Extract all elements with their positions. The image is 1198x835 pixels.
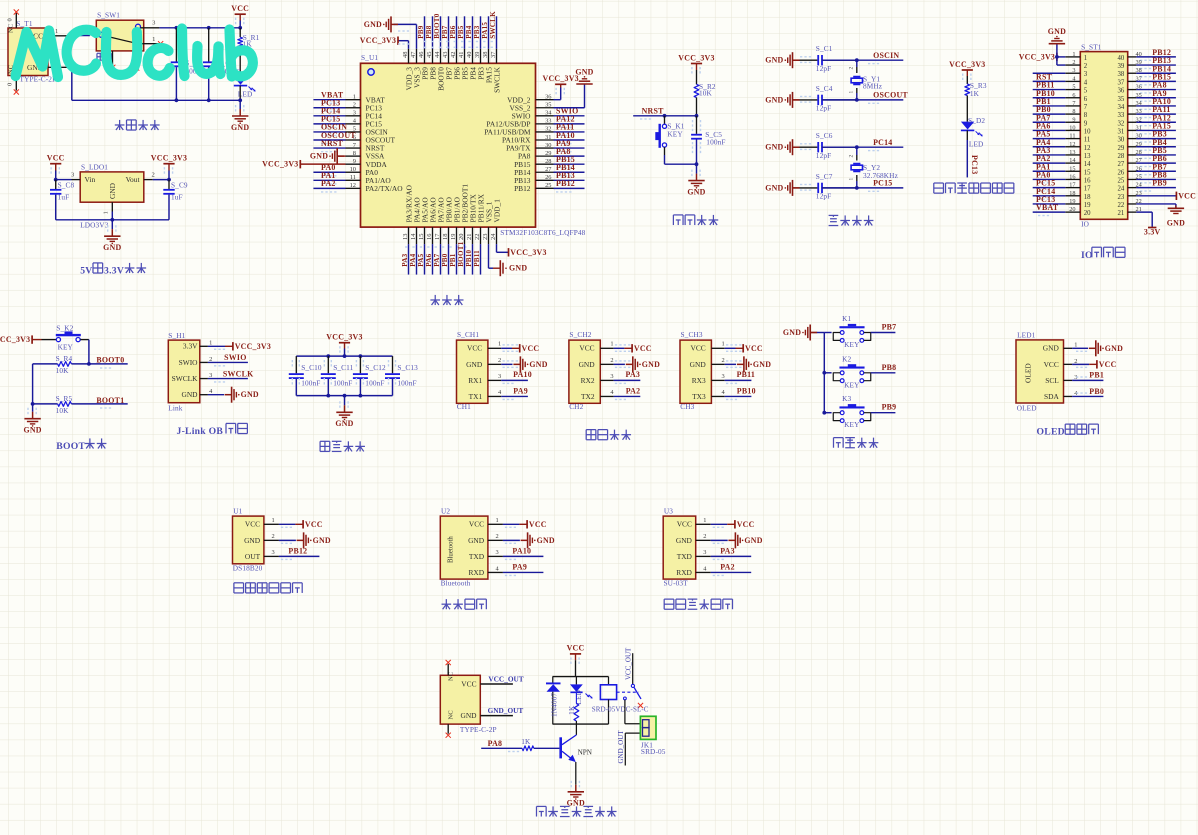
- switch pin 3: [141, 27, 160, 29]
- svg-text:9: 9: [353, 158, 356, 165]
- svg-text:3: 3: [496, 549, 499, 556]
- svg-text:PC14: PC14: [873, 138, 892, 147]
- wire/net PB9: [871, 412, 896, 414]
- 3.3V rail at io pin21: [1136, 211, 1152, 213]
- svg-text:VCC: VCC: [737, 520, 755, 529]
- svg-text:1: 1: [55, 28, 58, 35]
- wire/net PB8 io-right: [1136, 178, 1176, 180]
- svg-text:37: 37: [490, 51, 497, 58]
- title 继电器控制电路: [535, 806, 537, 816]
- wire/net OSCOUT: [313, 139, 345, 141]
- svg-text:40: 40: [466, 52, 473, 58]
- svg-text:S_LDO1: S_LDO1: [81, 163, 108, 172]
- svg-text:S_C9: S_C9: [171, 181, 188, 190]
- svg-text:GND: GND: [108, 182, 117, 199]
- switch S_SW1: [96, 20, 143, 51]
- svg-text:BOOT0: BOOT0: [433, 13, 441, 38]
- svg-text:GND: GND: [23, 426, 41, 435]
- svg-text:5: 5: [1072, 84, 1075, 91]
- wire/net PA4 io-left: [1033, 146, 1066, 148]
- wire/net PB5 io-right: [1136, 154, 1176, 156]
- svg-text:18: 18: [442, 234, 449, 240]
- svg-text:7: 7: [1084, 104, 1088, 111]
- svg-text:PA2/TX/AO: PA2/TX/AO: [366, 184, 404, 193]
- svg-text:1: 1: [498, 341, 501, 348]
- wire/net PB0 io-left: [1033, 113, 1066, 115]
- svg-text:VCC_3V3: VCC_3V3: [1019, 52, 1055, 61]
- pushbutton S_K2 KEY: [42, 339, 57, 341]
- wire/net PA6 vertical bottom: [432, 244, 434, 275]
- header pin 38 right: [1128, 72, 1137, 74]
- svg-text:TX1: TX1: [469, 392, 483, 401]
- wire/net NRST: [313, 147, 345, 149]
- svg-text:NC: NC: [8, 23, 15, 33]
- svg-text:GND: GND: [642, 360, 660, 369]
- header pin 26 right: [1128, 170, 1137, 172]
- wire/net PA3 vertical bottom: [408, 244, 410, 275]
- svg-text:VCC_3V3: VCC_3V3: [151, 154, 187, 163]
- pin 13 PA3/RX/AO: [408, 227, 410, 244]
- svg-text:24: 24: [490, 233, 497, 240]
- svg-text:OSCIN: OSCIN: [873, 51, 899, 60]
- svg-text:Vin: Vin: [85, 175, 96, 184]
- pin 38 PA15: [488, 49, 490, 64]
- svg-text:19: 19: [450, 234, 457, 240]
- svg-text:100nF: 100nF: [301, 378, 320, 387]
- svg-text:27: 27: [1118, 161, 1125, 168]
- svg-text:VCC_3V3: VCC_3V3: [326, 333, 362, 342]
- wire/net PA1 io-left: [1033, 170, 1066, 172]
- pushbutton K3 KEY: [839, 406, 864, 408]
- svg-text:GND: GND: [765, 56, 783, 65]
- net label NRST wire: [633, 115, 696, 117]
- svg-text:3.3V: 3.3V: [104, 266, 124, 277]
- svg-text:31: 31: [1118, 128, 1125, 135]
- svg-text:2: 2: [353, 102, 356, 109]
- pin 37 SWCLK: [496, 49, 498, 64]
- header pin 5 left: [1065, 89, 1080, 91]
- pin 1 GND of LDO: [111, 202, 113, 211]
- wire/net PB3 io-right: [1136, 138, 1176, 140]
- svg-text:PA7: PA7: [433, 253, 441, 266]
- svg-text:3.3V: 3.3V: [183, 342, 198, 351]
- pin 42 PB6: [456, 49, 458, 64]
- svg-text:GND: GND: [1048, 27, 1066, 36]
- svg-text:TX2: TX2: [581, 392, 595, 401]
- pin 46 PB9: [424, 49, 426, 64]
- svg-text:11: 11: [350, 174, 356, 181]
- wire/net PA7 io-left: [1033, 121, 1066, 123]
- header pin 33 right: [1128, 113, 1137, 115]
- svg-text:VCC_3V3: VCC_3V3: [262, 160, 298, 169]
- wire/net GND_OUT: [480, 715, 513, 717]
- svg-text:SWCLK: SWCLK: [223, 369, 254, 378]
- title 语音识别模块: [664, 598, 674, 600]
- wire/net VBAT: [313, 99, 345, 101]
- serial header S_CH1: [457, 340, 488, 403]
- svg-text:LDO3V3: LDO3V3: [80, 221, 109, 230]
- wire/net PB4 vertical: [472, 16, 474, 49]
- LED in relay circuit: [575, 677, 577, 685]
- VCC_3V3 power bar reset: [691, 63, 702, 65]
- svg-text:PB12: PB12: [514, 184, 531, 193]
- pushbutton K1 KEY: [839, 326, 864, 328]
- pin 33 PA12/USB/DP: [536, 123, 554, 125]
- header pin 39 right: [1128, 64, 1137, 66]
- ground GND transistor: [575, 762, 577, 785]
- svg-text:S_ST1: S_ST1: [1081, 43, 1102, 52]
- svg-text:2: 2: [1072, 59, 1075, 66]
- svg-text:GND: GND: [466, 360, 483, 369]
- pin 6 OSCOUT: [346, 139, 361, 141]
- module U3 SU-03T: [663, 516, 696, 579]
- wire/net PA15 io-right: [1136, 129, 1176, 131]
- title 滤波电路: [320, 440, 330, 442]
- wire/net PB0: [1072, 395, 1103, 397]
- svg-text:GND: GND: [310, 152, 328, 161]
- svg-text:S_CH1: S_CH1: [457, 330, 479, 339]
- wire/net PB10: [725, 395, 752, 397]
- svg-text:VCC_3V3: VCC_3V3: [510, 248, 546, 257]
- svg-text:1: 1: [496, 517, 499, 524]
- VCC_3V3 at VDD_3 pin48: [398, 40, 409, 42]
- resistor S_R3 1K: [965, 84, 970, 96]
- VCC at U3 pin1: [711, 523, 728, 525]
- svg-text:PB10: PB10: [737, 386, 756, 395]
- svg-text:U1: U1: [233, 506, 242, 515]
- svg-text:VCC: VCC: [245, 520, 260, 529]
- svg-text:BOOT1: BOOT1: [96, 396, 124, 405]
- svg-text:PC15: PC15: [873, 179, 892, 188]
- svg-text:12: 12: [1069, 141, 1075, 148]
- header pin 15 left: [1065, 170, 1080, 172]
- wire LDO bottom rail: [56, 219, 169, 221]
- svg-text:17: 17: [1069, 182, 1075, 189]
- wire/net PB13 io-right: [1136, 64, 1176, 66]
- svg-text:29: 29: [545, 150, 551, 157]
- wire/net PA10 io-right: [1136, 105, 1176, 107]
- svg-text:20: 20: [458, 234, 465, 240]
- svg-text:KEY: KEY: [844, 380, 860, 389]
- wire/net PB11: [725, 379, 752, 381]
- VCC_3V3 power bar boot: [31, 335, 33, 343]
- capacitor S_C4 12pF: [800, 99, 818, 101]
- header pin 36 right: [1128, 89, 1137, 91]
- svg-text:14: 14: [410, 233, 417, 240]
- wire/net PB12: [279, 555, 320, 557]
- svg-text:8MHz: 8MHz: [863, 82, 883, 91]
- svg-text:IO: IO: [1081, 250, 1093, 261]
- svg-text:GND: GND: [364, 20, 382, 29]
- relay switch contacts: [617, 691, 639, 693]
- svg-text:2: 2: [722, 357, 725, 364]
- title 按键电路: [832, 438, 834, 448]
- ground GND at U2 pin2: [503, 539, 520, 541]
- svg-text:NRST: NRST: [642, 107, 665, 116]
- wire/net PA9: [503, 571, 544, 573]
- svg-text:GND: GND: [1167, 218, 1185, 227]
- wire and net PC15: [822, 187, 904, 189]
- pushbutton K2 KEY: [839, 367, 864, 369]
- svg-text:TXD: TXD: [469, 552, 485, 561]
- svg-text:13: 13: [1084, 153, 1091, 160]
- wire/net PB15: [554, 163, 585, 165]
- capacitor S_C12 100nF: [359, 356, 361, 373]
- capacitor S_C9 1uF: [168, 180, 170, 189]
- ground GND at OLED pin1: [1072, 347, 1088, 349]
- svg-text:IO: IO: [1081, 220, 1089, 229]
- wire S_T1 pin2 down to bottom rail: [67, 66, 72, 68]
- wire VCC top rail: [239, 21, 241, 28]
- ground at VSSA pin8: [337, 155, 344, 157]
- svg-text:DS18B20: DS18B20: [233, 563, 263, 572]
- title 复位电路: [672, 215, 674, 225]
- svg-text:S_D2: S_D2: [968, 116, 985, 125]
- wire/net PB7 io-right: [1136, 170, 1176, 172]
- svg-text:S_C10: S_C10: [301, 363, 322, 372]
- wire/net PA10: [503, 555, 544, 557]
- wire/net PC15 io-left: [1033, 187, 1066, 189]
- svg-text:BOOT1: BOOT1: [457, 241, 465, 266]
- wire K2 to BOOT0 net: [88, 340, 90, 364]
- VCC at U2 pin1: [503, 523, 520, 525]
- pin 25 PB12: [536, 187, 554, 189]
- svg-text:15: 15: [1084, 169, 1091, 176]
- svg-text:STM32F103C8T6_LQFP48: STM32F103C8T6_LQFP48: [500, 228, 585, 237]
- wire/net PB15 io-right: [1136, 80, 1176, 82]
- svg-text:GND: GND: [509, 264, 527, 273]
- svg-text:PA2: PA2: [321, 179, 336, 188]
- pin 19 PB1/AO: [456, 227, 458, 244]
- header pin 18 left: [1065, 195, 1080, 197]
- wire/net PC13: [313, 107, 345, 109]
- pin 31 PA10/RX: [536, 139, 554, 141]
- svg-text:LED: LED: [969, 140, 984, 149]
- wire/net PB6 vertical: [456, 16, 458, 49]
- header pin 29 right: [1128, 146, 1137, 148]
- wire/net PB14 io-right: [1136, 72, 1176, 74]
- ground GND at io pin22: [1136, 203, 1176, 205]
- svg-text:GND: GND: [244, 536, 261, 545]
- svg-text:PB8: PB8: [882, 363, 897, 372]
- svg-text:16: 16: [426, 234, 433, 240]
- svg-text:35: 35: [545, 102, 551, 109]
- VCC_3V3 at H1 pin1: [208, 345, 225, 347]
- svg-text:2: 2: [496, 533, 499, 540]
- capacitor S_C11 100nF: [327, 356, 329, 373]
- svg-text:14: 14: [1084, 161, 1091, 168]
- svg-text:S_U1: S_U1: [361, 53, 378, 62]
- crystal S_Y2 32.768KHz: [856, 147, 858, 155]
- wire to JK1 pin1: [624, 700, 626, 724]
- resistor 1K relay: [575, 692, 577, 703]
- svg-text:9: 9: [1072, 116, 1075, 123]
- svg-text:BOOT0: BOOT0: [96, 355, 124, 364]
- svg-text:VCC: VCC: [1044, 360, 1059, 369]
- header pin 34 right: [1128, 105, 1137, 107]
- connector S_T1 TYPE-C-2P: [8, 28, 48, 76]
- svg-text:1N4007: 1N4007: [550, 693, 559, 717]
- svg-text:PB0: PB0: [1089, 387, 1104, 396]
- VCC_3V3 at VDD_2 pin36: [554, 99, 561, 101]
- svg-text:23: 23: [1118, 194, 1125, 201]
- svg-text:28: 28: [545, 158, 551, 165]
- svg-text:PB11: PB11: [737, 370, 756, 379]
- svg-text:12pF: 12pF: [816, 151, 831, 160]
- svg-text:GND: GND: [676, 536, 693, 545]
- svg-text:12pF: 12pF: [816, 104, 831, 113]
- MCU U1 STM32F103C8T6 main chip: [361, 63, 536, 227]
- wire/net PB8 vertical: [432, 16, 434, 49]
- svg-text:VCC_3V3: VCC_3V3: [0, 335, 30, 344]
- svg-text:GND: GND: [460, 711, 477, 720]
- svg-text:GND: GND: [468, 536, 485, 545]
- capacitor S_C1 12pF: [800, 59, 818, 61]
- header pin 12 left: [1065, 146, 1080, 148]
- svg-text:2: 2: [610, 357, 613, 364]
- svg-text:PA9: PA9: [513, 386, 528, 395]
- connector TYPE-C-2P power out: [440, 675, 480, 724]
- svg-text:PB5: PB5: [457, 25, 465, 39]
- capacitor S_C7 12pF: [800, 187, 818, 189]
- svg-text:10: 10: [350, 166, 356, 173]
- svg-text:CH3: CH3: [680, 402, 694, 411]
- VCC power bar relay: [570, 653, 581, 655]
- wire/net PA2: [711, 571, 752, 573]
- header pin 25 right: [1128, 178, 1137, 180]
- svg-text:3.3V: 3.3V: [1144, 228, 1161, 237]
- pin 12 PA2/TX/AO: [346, 187, 361, 189]
- svg-text:PB3: PB3: [473, 25, 481, 39]
- svg-text:12pF: 12pF: [816, 192, 831, 201]
- svg-text:19: 19: [1069, 198, 1075, 205]
- svg-text:PA8: PA8: [488, 739, 503, 748]
- svg-text:15: 15: [418, 234, 425, 240]
- svg-text:46: 46: [418, 52, 425, 58]
- svg-text:GND: GND: [690, 360, 707, 369]
- svg-text:SWIO: SWIO: [179, 358, 199, 367]
- svg-text:10K: 10K: [56, 406, 70, 415]
- svg-text:1: 1: [353, 94, 356, 101]
- svg-text:PA10: PA10: [513, 370, 532, 379]
- svg-text:3: 3: [1072, 67, 1075, 74]
- wire/net PA3: [614, 379, 641, 381]
- svg-text:1: 1: [849, 178, 855, 181]
- wire/net PA2 io-left: [1033, 162, 1066, 164]
- wire and net OSCIN: [822, 59, 904, 61]
- pin 40 PB4: [472, 49, 474, 64]
- svg-text:PB12: PB12: [288, 547, 307, 556]
- svg-text:2: 2: [849, 67, 855, 70]
- svg-text:SWCLK: SWCLK: [172, 374, 199, 383]
- VCC_3V3 at io pin1: [1057, 56, 1065, 58]
- serial header S_CH2: [569, 340, 600, 403]
- svg-text:S_C11: S_C11: [333, 363, 353, 372]
- pin 22 PB11/RX: [480, 227, 482, 244]
- svg-text:S_SW1: S_SW1: [97, 11, 120, 20]
- ground GND power circuit: [239, 100, 241, 109]
- header pin 9 left: [1065, 121, 1080, 123]
- ground GND at H1 pin4: [208, 394, 224, 396]
- wire/net PB13: [554, 179, 585, 181]
- svg-text:NC: NC: [448, 710, 455, 720]
- module U2 Bluetooth: [440, 516, 488, 579]
- wire/net PA2: [313, 187, 345, 189]
- capacitor S_C10 100nF: [295, 356, 297, 373]
- svg-text:38: 38: [482, 52, 489, 58]
- svg-text:PA3: PA3: [401, 253, 409, 266]
- svg-text:23: 23: [482, 234, 489, 240]
- title 温度检测模块: [234, 582, 244, 584]
- wire filter top rail: [296, 355, 392, 357]
- svg-text:GND: GND: [765, 143, 783, 152]
- svg-text:21: 21: [466, 234, 473, 240]
- ground at VSS_1 pin23: [488, 244, 490, 268]
- svg-text:32: 32: [545, 126, 551, 133]
- svg-text:8: 8: [1084, 112, 1088, 119]
- svg-text:0: 0: [7, 18, 14, 21]
- resistor S_R1 1K: [239, 28, 241, 37]
- pin 26 PB13: [536, 179, 554, 181]
- wire/net PC14: [313, 115, 345, 117]
- MCUclub logo watermark: [16, 29, 253, 78]
- wire and net PC13: [966, 130, 968, 140]
- svg-text:18: 18: [1069, 190, 1075, 197]
- VCC at CH1 pin1: [501, 347, 512, 349]
- svg-text:16: 16: [1069, 173, 1075, 180]
- svg-text:S_C4: S_C4: [816, 84, 833, 93]
- svg-text:43: 43: [442, 52, 449, 58]
- svg-text:1: 1: [722, 341, 725, 348]
- wire/net PB11 io-left: [1033, 89, 1066, 91]
- svg-text:3: 3: [722, 373, 725, 380]
- pin 3 PC14: [346, 115, 361, 117]
- pin 47 VSS_3: [416, 49, 418, 64]
- wire/net SWCLK vertical: [496, 16, 498, 49]
- svg-text:VCC: VCC: [677, 520, 692, 529]
- svg-text:PA2: PA2: [720, 563, 735, 572]
- svg-text:GND: GND: [783, 328, 801, 337]
- svg-text:44: 44: [434, 51, 441, 58]
- pin 16 PA6/AO: [432, 227, 434, 244]
- svg-text:S_C6: S_C6: [816, 131, 833, 140]
- module U1 DS18B20: [233, 516, 264, 564]
- svg-text:1K: 1K: [521, 737, 531, 746]
- svg-text:GND: GND: [313, 536, 331, 545]
- svg-text:TXD: TXD: [677, 552, 693, 561]
- connector JK1 SRD-05: [640, 716, 656, 739]
- header pin 4 left: [1065, 80, 1080, 82]
- wire/net PC13 io-left: [1033, 203, 1066, 205]
- svg-text:1uF: 1uF: [171, 192, 183, 201]
- svg-text:VCC_OUT: VCC_OUT: [488, 675, 523, 684]
- svg-text:3: 3: [703, 549, 706, 556]
- svg-text:OLED: OLED: [1037, 427, 1065, 438]
- svg-text:15: 15: [1069, 165, 1075, 172]
- pin 21 PB10/TX: [472, 227, 474, 244]
- svg-text:GND: GND: [579, 360, 596, 369]
- svg-text:SCL: SCL: [1045, 376, 1059, 385]
- svg-text:OLED: OLED: [1017, 403, 1037, 412]
- svg-text:2: 2: [1084, 63, 1088, 70]
- svg-text:S_C1: S_C1: [816, 44, 833, 53]
- svg-text:LED1: LED1: [1017, 331, 1036, 340]
- svg-text:GND: GND: [765, 95, 783, 104]
- svg-text:GND: GND: [753, 360, 771, 369]
- svg-text:VCC: VCC: [567, 644, 585, 653]
- wire/net PA11 io-right: [1136, 113, 1176, 115]
- pin 14 PA4/AO: [416, 227, 418, 244]
